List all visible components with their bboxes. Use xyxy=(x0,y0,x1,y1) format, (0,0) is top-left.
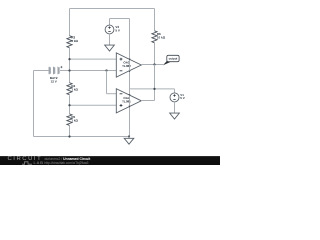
wire left rail x=69 lower xyxy=(69,95,71,114)
op-amp OA4 xyxy=(116,89,141,113)
CircuitLab logo xyxy=(8,156,43,162)
svg-text:5 V: 5 V xyxy=(115,28,120,32)
resistor R4 xyxy=(67,83,72,95)
voltage source V1 xyxy=(170,89,179,113)
svg-text:5 V: 5 V xyxy=(180,96,185,100)
wire OA4 noninverting input xyxy=(70,104,117,106)
wire OA4 inverting branch vertical xyxy=(106,71,108,94)
wire V3 top loop xyxy=(110,18,130,20)
OA4 supply pin marks xyxy=(129,94,131,107)
wire left outer rail xyxy=(33,71,35,137)
ground below V3 xyxy=(105,45,115,51)
node junction R4-R5 xyxy=(68,104,70,106)
wire OA3 output xyxy=(141,64,163,66)
wire R6 bottom xyxy=(154,43,156,65)
wire supply vertical rail xyxy=(129,19,131,137)
voltage source V3 xyxy=(105,19,114,46)
svg-text:1 kΩ: 1 kΩ xyxy=(71,119,78,123)
ground below V1 xyxy=(170,113,180,119)
wire output down to OA4 output xyxy=(154,65,156,101)
resistor R6 xyxy=(152,31,157,43)
node junction bottom ground xyxy=(128,135,130,137)
wire left rail x=69 upper xyxy=(69,9,71,36)
wire left rail x=69 bottom xyxy=(69,126,71,137)
wire right rail R6 top xyxy=(154,9,156,31)
wire OA3 noninverting input xyxy=(70,58,117,60)
svg-text:10 kΩ: 10 kΩ xyxy=(157,36,166,40)
node junction rail-battery xyxy=(68,69,70,71)
attribution text xyxy=(45,157,91,161)
node junction supply rail xyxy=(153,88,155,90)
battery BAT2 xyxy=(49,66,62,74)
node junction R5 bottom xyxy=(68,135,70,137)
wire left rail x=69 middle xyxy=(69,48,71,83)
op-amp OA3 xyxy=(116,53,141,77)
wire OA4 output xyxy=(141,100,155,102)
wire battery to OA3 inverting input xyxy=(60,70,116,72)
svg-text:output: output xyxy=(169,57,178,61)
wire top rail xyxy=(70,8,155,10)
svg-text:1 kΩ: 1 kΩ xyxy=(71,88,78,92)
footer watermark bar xyxy=(0,156,220,165)
wire bottom rail xyxy=(34,136,130,138)
wire battery left xyxy=(34,70,49,72)
node junction R3-R4 xyxy=(68,58,70,60)
wire OA4 inverting branch horizontal xyxy=(107,93,117,95)
wire supply horizontal rail xyxy=(130,88,175,90)
svg-text:1 kΩ: 1 kΩ xyxy=(71,39,78,43)
node junction OA4 branch xyxy=(105,69,107,71)
node junction output xyxy=(153,63,155,65)
output flag xyxy=(163,55,179,65)
resistor R3 xyxy=(67,36,72,48)
OA3 supply pin marks xyxy=(129,59,131,73)
ground bottom center xyxy=(128,137,130,139)
resistor R5 xyxy=(67,114,72,126)
svg-text:12 V: 12 V xyxy=(51,79,57,83)
